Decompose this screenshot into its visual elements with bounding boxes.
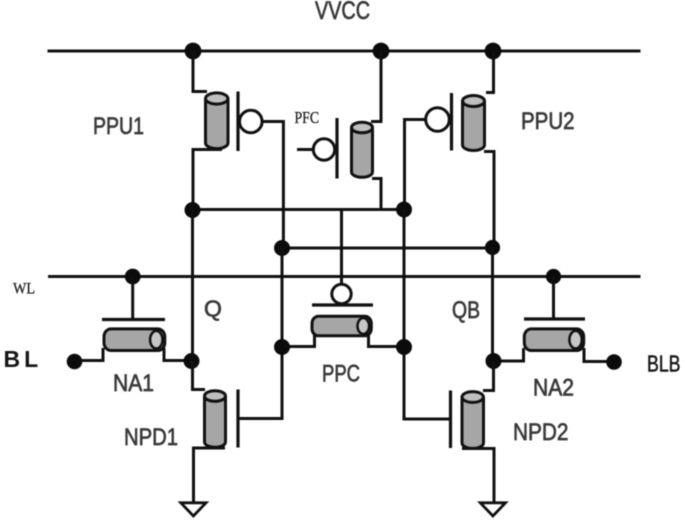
wire PPU2 source down [484,152,494,248]
junction dot PPC right / Q branch [396,339,412,355]
wire QB column down [491,248,494,362]
wire QB branch down left [281,248,284,347]
transistor PPU2 (PMOS) [426,93,485,151]
wire PPU1 drain to VVCC [193,51,207,92]
ground symbol right [480,503,505,516]
junction dot node QB [486,353,502,369]
svg-text:PPU1: PPU1 [93,113,144,140]
wire PPU1 gate to QB branch [262,122,283,249]
wire Q branch down right [403,210,406,348]
word line WL [48,275,641,278]
svg-text:QB: QB [452,297,480,324]
wire NA2 left contact to QB node [494,348,524,361]
svg-text:NPD2: NPD2 [513,419,569,446]
transistor NA1 (NMOS access, horizontal) [102,320,165,351]
wire PPC right contact [369,334,404,347]
wire QB branch to NPD1 gate [240,347,283,419]
wire NPD2 source to ground [462,449,494,503]
svg-text:PPU2: PPU2 [521,108,575,135]
transistor NA2 (NMOS access, horizontal) [524,319,585,351]
junction dot Q line right [396,202,412,218]
ground symbol left [181,503,206,516]
wire NA1 gate stub [131,277,134,319]
wire cross-couple node Q horizontal [193,208,405,211]
junction dot Q line left [185,202,201,218]
junction dot WL/NA1 gate [125,269,141,285]
svg-text:PPC: PPC [322,361,360,388]
transistor NPD2 (NMOS) [451,391,484,449]
junction dot PPC left / QB branch [274,339,290,355]
wire PPC gate from Q line [340,210,343,285]
junction dot WL/NA2 gate [546,269,561,284]
junction dot node Q [184,353,200,369]
power rail VVCC [48,50,641,53]
terminal dot BL [67,354,83,370]
wire Q branch to NPD2 gate [404,347,451,419]
junction dot QB line right [485,240,500,255]
wire PFC drain to VVCC [371,51,381,122]
svg-text:NA2: NA2 [533,375,574,402]
wire NPD1 source to ground [194,448,226,502]
wire PFC source down to Q cross line [372,179,381,209]
svg-text:WL: WL [13,281,35,298]
junction dot VVCC/PFC drain [373,43,390,60]
transistor PFC (PMOS) [313,118,372,179]
junction dot QB line left [274,240,290,256]
wire cross-couple node QB horizontal [282,247,493,250]
svg-text:VVCC: VVCC [315,0,370,25]
wire PPU2 gate to Q branch [405,120,426,210]
wire NA2 right contact to BLB [584,348,607,362]
wire NA1 left contact to BL [77,348,103,361]
wire NA2 gate stub [552,277,555,319]
svg-text:BL: BL [4,346,43,372]
wire PFC gate stub [297,148,313,151]
wire PPU2 drain to VVCC [486,51,494,93]
transistor PPU1 (PMOS) [206,92,263,152]
wire Q column down [191,210,194,361]
wire PPC left contact [283,334,315,347]
svg-text:BLB: BLB [647,351,681,377]
terminal dot BLB [606,354,622,370]
svg-text:NA1: NA1 [113,370,154,397]
transistor PPC (PMOS, horizontal) [312,284,373,336]
junction dot VVCC/PPU2 drain [485,43,502,60]
svg-text:Q: Q [204,296,222,322]
svg-text:NPD1: NPD1 [124,424,178,451]
junction dot VVCC/PPU1 drain [185,43,202,60]
wire NA1 right contact to Q node [164,348,192,361]
wire PPU1 source down to node Q column [193,150,222,212]
svg-text:PFC: PFC [295,108,320,127]
transistor NPD1 (NMOS) [205,390,239,448]
wire QB node to NPD2 drain [483,361,494,391]
wire Q node to NPD1 drain [193,361,206,390]
